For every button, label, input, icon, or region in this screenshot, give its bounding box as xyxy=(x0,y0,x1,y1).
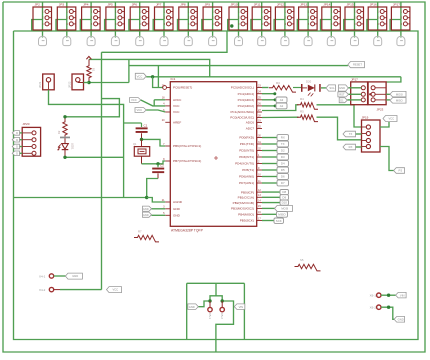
pin 1 PD3(INT1) xyxy=(239,154,262,159)
svg-text:JP20: JP20 xyxy=(22,122,29,126)
net flag GND X6 xyxy=(394,317,405,323)
svg-text:PB3(MOSI/OC2): PB3(MOSI/OC2) xyxy=(231,207,254,211)
svg-text:1: 1 xyxy=(308,11,310,14)
svg-text:PC3(ADC3): PC3(ADC3) xyxy=(238,98,254,102)
svg-text:1: 1 xyxy=(331,11,333,14)
svg-text:GND: GND xyxy=(173,207,181,211)
pad under JP9 xyxy=(209,36,217,45)
svg-text:PD1(TXD): PD1(TXD) xyxy=(240,142,254,146)
wire pin23 to R3 xyxy=(262,87,269,89)
net flag RESET xyxy=(348,62,365,68)
wire PB4 xyxy=(262,213,277,215)
pin ring X4-2 xyxy=(49,287,53,291)
wire JP19 to PS flag xyxy=(380,147,394,171)
connector JP5 xyxy=(105,2,125,38)
pin X4-1 xyxy=(39,274,54,279)
svg-text:1: 1 xyxy=(91,11,93,14)
svg-text:27: 27 xyxy=(258,109,261,112)
svg-text:MOSI: MOSI xyxy=(396,92,403,96)
pin 26 PC2(ADC2) xyxy=(238,103,262,108)
pin 20 AREF xyxy=(162,119,182,124)
pin 30 PD0(RXD) xyxy=(239,134,262,139)
net flag p5 xyxy=(339,98,347,103)
net label box D8 xyxy=(280,190,289,195)
svg-text:20: 20 xyxy=(162,119,165,122)
pin 6 VCC xyxy=(163,109,180,114)
svg-text:32: 32 xyxy=(258,147,261,150)
svg-text:PC5(ADC5/SCL): PC5(ADC5/SCL) xyxy=(231,86,254,90)
svg-text:PC0(ADC0/USC): PC0(ADC0/USC) xyxy=(230,116,254,120)
svg-text:1: 1 xyxy=(285,11,287,14)
pin X4-2 xyxy=(39,287,60,292)
svg-text:D10: D10 xyxy=(282,201,288,205)
net flag GND1 xyxy=(143,206,152,211)
junction xyxy=(274,105,277,108)
resistor R6 xyxy=(295,264,321,271)
net flag GND2 xyxy=(143,212,152,217)
svg-text:1: 1 xyxy=(261,11,263,14)
wire X5-2 up xyxy=(216,296,222,301)
svg-text:1: 1 xyxy=(238,11,240,14)
svg-text:25: 25 xyxy=(258,97,261,100)
wire reset riser xyxy=(128,59,130,82)
junction xyxy=(387,306,390,309)
pin X6-2 xyxy=(370,305,381,309)
svg-text:VCC: VCC xyxy=(388,117,394,121)
svg-text:JP16: JP16 xyxy=(370,3,377,7)
wire PD1(TXD) xyxy=(262,143,277,145)
svg-text:PD7(AIN1): PD7(AIN1) xyxy=(239,181,254,185)
svg-text:JP15: JP15 xyxy=(347,3,354,7)
svg-text:2: 2 xyxy=(354,17,356,20)
svg-text:X5-2: X5-2 xyxy=(220,313,224,319)
svg-text:2: 2 xyxy=(401,17,403,20)
net flag SCL xyxy=(326,85,336,91)
wire PB1 xyxy=(262,196,280,198)
junction xyxy=(63,156,66,159)
svg-text:PD4(XCK/T0): PD4(XCK/T0) xyxy=(235,162,254,166)
svg-text:PB4(MISO): PB4(MISO) xyxy=(238,213,254,217)
svg-text:9: 9 xyxy=(258,167,260,170)
svg-text:ATMEGA328P TQFP: ATMEGA328P TQFP xyxy=(171,229,204,233)
resistor R1 xyxy=(87,59,91,82)
svg-text:C2: C2 xyxy=(160,163,164,167)
connector JP9 xyxy=(202,2,222,38)
svg-text:2: 2 xyxy=(91,17,93,20)
svg-text:D6: D6 xyxy=(281,175,285,179)
svg-text:JP13: JP13 xyxy=(300,3,307,7)
wire XTAL2 to pin8 xyxy=(158,161,165,164)
svg-text:JP17: JP17 xyxy=(393,3,400,7)
wire PD3(INT1) xyxy=(262,156,277,158)
svg-text:PS: PS xyxy=(399,169,403,173)
connector JP4 xyxy=(80,2,100,38)
wire cluster top xyxy=(187,282,245,284)
capacitor C1 xyxy=(136,123,148,139)
svg-text:PC4(ADC4): PC4(ADC4) xyxy=(238,92,254,96)
svg-text:3: 3 xyxy=(67,23,69,26)
pin 12 PB0(ICP) xyxy=(241,189,262,194)
wire JP20 pin4 stub xyxy=(20,152,23,154)
svg-text:1: 1 xyxy=(377,11,379,14)
pin 7 PB6(XTAL1/TOSC1) xyxy=(163,143,201,148)
wire gnd to C1 xyxy=(124,122,142,124)
wire X5-2 stair to outer xyxy=(216,301,234,352)
svg-text:2: 2 xyxy=(285,17,287,20)
svg-text:PC6(/RESET): PC6(/RESET) xyxy=(173,86,192,90)
wire cluster left xyxy=(186,283,188,339)
net flag PS xyxy=(394,168,405,174)
svg-text:3: 3 xyxy=(354,23,356,26)
svg-text:JP10: JP10 xyxy=(231,3,238,7)
svg-text:PD6(AIN0): PD6(AIN0) xyxy=(239,175,254,179)
svg-text:JP21: JP21 xyxy=(38,81,42,88)
wire LED cathode rail xyxy=(65,156,124,158)
ring xyxy=(377,293,381,297)
junction xyxy=(156,162,159,165)
wire tag to JP17 p1 xyxy=(348,87,361,89)
connector JP17 xyxy=(390,2,410,38)
wire cluster middle drop xyxy=(215,283,217,296)
svg-text:16: 16 xyxy=(258,211,261,214)
svg-text:PB7(XTAL2/TOSC2): PB7(XTAL2/TOSC2) xyxy=(173,159,201,163)
svg-text:2: 2 xyxy=(308,17,310,20)
net label box pin26 xyxy=(276,103,287,109)
svg-text:MISO: MISO xyxy=(396,98,403,102)
svg-text:JP5: JP5 xyxy=(107,3,113,7)
wire X4-1 to GND xyxy=(54,275,66,277)
wire pin24 xyxy=(262,93,275,95)
wire XTAL1 net xyxy=(142,139,166,146)
wire X5-1 to GND tag xyxy=(198,301,210,307)
wire H3 branch to reset pin xyxy=(157,66,159,88)
svg-text:GND: GND xyxy=(143,213,149,217)
svg-text:JP9: JP9 xyxy=(205,3,211,7)
supply VCC symbol xyxy=(86,56,91,59)
wire X6-2 to GND xyxy=(381,307,394,319)
svg-text:SCL: SCL xyxy=(329,86,335,90)
net flag VCC X4 xyxy=(107,287,122,293)
wire gnd tag1 xyxy=(152,208,166,210)
wire XTAL2 net xyxy=(142,163,159,165)
svg-text:D: D xyxy=(16,131,18,135)
net flag MOSI xyxy=(390,91,406,97)
pad under JP6 xyxy=(136,36,144,45)
svg-text:A3: A3 xyxy=(280,98,284,102)
wire JP21 to gnd rail xyxy=(49,90,124,198)
wire D20 to flag xyxy=(321,87,326,89)
svg-text:2: 2 xyxy=(188,17,190,20)
svg-text:JP6: JP6 xyxy=(132,3,138,7)
svg-text:2: 2 xyxy=(115,17,117,20)
pad under JP3 xyxy=(63,36,71,45)
connector JP7 xyxy=(153,2,173,38)
svg-text:3: 3 xyxy=(401,23,403,26)
pin 24 PC4(ADC4) xyxy=(238,91,262,96)
junction in JP10 xyxy=(230,24,233,27)
svg-text:1: 1 xyxy=(164,11,166,14)
svg-text:JP11: JP11 xyxy=(254,3,261,7)
svg-text:11: 11 xyxy=(258,180,261,183)
wire H1 rail to inner loop xyxy=(102,31,228,52)
wire pin27 to R4 xyxy=(262,105,299,111)
wire H3 reset rail to RESET flag xyxy=(129,65,348,67)
connector JP19 xyxy=(362,116,381,153)
net label box D6 xyxy=(277,174,289,180)
svg-text:GND: GND xyxy=(398,317,404,321)
connector JP14 xyxy=(321,2,341,38)
ring xyxy=(377,305,381,309)
svg-text:Q1: Q1 xyxy=(133,142,137,146)
reset bubble xyxy=(163,86,167,90)
junction xyxy=(273,92,276,95)
net flag VCC vcc2 xyxy=(135,108,146,113)
resistor R4 xyxy=(297,103,318,110)
svg-text:LED1: LED1 xyxy=(71,143,75,150)
svg-text:R5: R5 xyxy=(300,109,304,113)
svg-text:1: 1 xyxy=(188,11,190,14)
svg-text:2: 2 xyxy=(261,17,263,20)
svg-text:3: 3 xyxy=(115,23,117,26)
pad under JP17 xyxy=(397,36,405,45)
wire X5-1 up xyxy=(210,296,216,301)
connector JP8 xyxy=(178,2,198,38)
svg-text:PC2(ADC2): PC2(ADC2) xyxy=(238,104,254,108)
svg-text:D4: D4 xyxy=(281,162,285,166)
svg-text:SCK: SCK xyxy=(276,219,282,223)
svg-text:D9: D9 xyxy=(282,195,286,199)
svg-text:RST: RST xyxy=(339,93,345,97)
net label box RX xyxy=(277,135,289,141)
ring xyxy=(220,307,224,311)
svg-text:X6-1: X6-1 xyxy=(370,293,377,297)
capacitor C2 xyxy=(152,163,164,178)
wire gnd tag2 xyxy=(152,214,166,216)
wire tag to VCC pin diagonal xyxy=(141,100,166,106)
svg-text:PB2(SS/OC1B): PB2(SS/OC1B) xyxy=(233,201,254,205)
svg-text:D20: D20 xyxy=(306,79,312,83)
pin 28 PC0(ADC0/USC) xyxy=(230,114,262,119)
connector JP6 xyxy=(129,2,149,38)
LED LED1 xyxy=(58,138,75,157)
svg-text:PB0(ICP): PB0(ICP) xyxy=(241,190,254,194)
junction xyxy=(145,196,148,199)
junction xyxy=(208,299,211,302)
pin X5-2 xyxy=(220,301,224,319)
net label box SCK xyxy=(274,218,284,223)
pin 31 PD1(TXD) xyxy=(240,141,262,146)
pad under JP10 xyxy=(235,36,243,45)
svg-text:PC1(ADC1/SDA): PC1(ADC1/SDA) xyxy=(230,110,254,114)
svg-text:JP7: JP7 xyxy=(156,3,162,7)
resistor R2 xyxy=(63,117,67,137)
pad under JP2 xyxy=(39,36,47,45)
wire reset net from R1 xyxy=(89,82,129,84)
pin 10 PD6(AIN0) xyxy=(239,173,262,178)
wire JP20 pin3 stub xyxy=(20,146,23,148)
net flag JP20-4 xyxy=(12,151,19,156)
connector JP20 xyxy=(22,122,40,156)
pin 13 PB1(OC1A) xyxy=(238,194,262,199)
svg-text:R4: R4 xyxy=(300,97,304,101)
svg-text:R2: R2 xyxy=(57,130,61,134)
svg-text:JP19: JP19 xyxy=(362,116,369,120)
resistor R5 xyxy=(297,115,318,122)
svg-text:17: 17 xyxy=(258,217,261,220)
svg-text:3: 3 xyxy=(164,23,166,26)
pad under JP15 xyxy=(351,36,359,45)
svg-text:3: 3 xyxy=(212,23,214,26)
svg-text:R7: R7 xyxy=(138,229,142,233)
net flag to JP17 p1 xyxy=(338,85,348,91)
svg-text:31: 31 xyxy=(258,141,261,144)
svg-text:RX: RX xyxy=(281,136,285,140)
pin X5-1 xyxy=(208,301,212,319)
svg-text:PB5(SCK): PB5(SCK) xyxy=(240,219,254,223)
net flag MISO xyxy=(390,98,406,104)
pin X6-1 xyxy=(370,293,381,297)
svg-text:1: 1 xyxy=(42,11,44,14)
svg-text:13: 13 xyxy=(258,194,261,197)
svg-text:23: 23 xyxy=(258,84,261,87)
svg-text:X5-1: X5-1 xyxy=(208,313,212,319)
svg-text:D7: D7 xyxy=(281,181,285,185)
connector JP15 xyxy=(344,2,364,38)
net label box D2 xyxy=(277,148,289,154)
svg-text:1: 1 xyxy=(258,154,260,157)
resistor R7 xyxy=(134,235,159,242)
svg-text:1: 1 xyxy=(401,11,403,14)
svg-text:JP2: JP2 xyxy=(35,3,41,7)
pin 3 GND xyxy=(163,206,181,211)
svg-text:GND: GND xyxy=(173,214,181,218)
svg-text:VCC: VCC xyxy=(137,74,143,78)
svg-text:12: 12 xyxy=(258,189,261,192)
svg-text:2: 2 xyxy=(67,17,69,20)
pin 32 PD2(INT0) xyxy=(239,147,262,152)
svg-text:C1: C1 xyxy=(144,123,148,127)
net flag RX xyxy=(343,144,356,150)
net label box D3 xyxy=(277,154,289,160)
svg-text:VIN: VIN xyxy=(400,293,405,297)
svg-text:D: D xyxy=(16,145,18,149)
svg-text:3: 3 xyxy=(91,23,93,26)
net flag MOSI pb3 xyxy=(275,206,293,212)
pin 17 PB5(SCK) xyxy=(240,217,262,222)
svg-text:PD2(INT0): PD2(INT0) xyxy=(239,149,254,153)
wire PD5(T1) xyxy=(262,169,277,171)
wire JP17 to MOSI xyxy=(386,93,390,95)
svg-text:JP23: JP23 xyxy=(377,107,384,111)
svg-text:TX: TX xyxy=(281,142,285,146)
connector JP11 xyxy=(251,2,271,38)
wire PD7(AIN1) xyxy=(262,182,277,184)
svg-text:VCC: VCC xyxy=(173,104,180,108)
svg-text:X6-2: X6-2 xyxy=(370,305,377,309)
op-amp? no: IC U1 ATMEGA328P TQFP xyxy=(170,77,256,233)
wire PB3 xyxy=(262,207,275,209)
svg-text:D: D xyxy=(16,138,18,142)
svg-text:R1: R1 xyxy=(92,68,96,72)
connector JP16 xyxy=(367,2,387,38)
svg-text:2: 2 xyxy=(139,17,141,20)
pin 5 GND xyxy=(163,212,181,217)
svg-text:AGND: AGND xyxy=(173,200,183,204)
wire R4 to JP19 pin1 xyxy=(317,105,362,127)
svg-text:TX: TX xyxy=(349,132,353,136)
connector JP2 xyxy=(32,2,52,38)
wire pin26 xyxy=(262,105,276,107)
svg-text:A2: A2 xyxy=(280,104,284,108)
svg-text:PD5(T1): PD5(T1) xyxy=(242,168,254,172)
junction xyxy=(63,115,66,118)
wire C2 to gnd junction xyxy=(147,179,158,198)
svg-text:X4-2: X4-2 xyxy=(39,288,46,292)
svg-text:1: 1 xyxy=(354,11,356,14)
diode D20 with blocking caps xyxy=(293,79,321,96)
wire PD0(RXD) xyxy=(262,137,277,139)
svg-text:2: 2 xyxy=(377,17,379,20)
pin 22 ADC7 xyxy=(246,125,262,130)
wire cluster right xyxy=(243,283,245,339)
svg-text:15: 15 xyxy=(258,205,261,208)
wire H4 into JP17 xyxy=(386,77,401,82)
pin ring X4-1 xyxy=(49,274,53,278)
svg-text:1: 1 xyxy=(212,11,214,14)
svg-text:AVCC: AVCC xyxy=(173,98,182,102)
wire H2 VCC rail xyxy=(89,59,210,76)
net flag RST xyxy=(338,92,349,97)
pin 21 AGND xyxy=(162,199,183,204)
svg-text:IC1: IC1 xyxy=(171,77,176,81)
pin 14 PB2(SS/OC1B) xyxy=(233,199,262,204)
pin 29 PC6(/RESET) xyxy=(162,84,193,89)
pin 16 PB4(MISO) xyxy=(238,211,262,216)
wire H4 rail across top of IC xyxy=(146,76,401,78)
svg-text:2: 2 xyxy=(164,17,166,20)
svg-text:3: 3 xyxy=(188,23,190,26)
pad under JP13 xyxy=(304,36,312,45)
wire gnd rail xyxy=(14,197,147,199)
ring xyxy=(208,307,212,311)
connector JP3 xyxy=(56,2,76,38)
svg-text:VIN: VIN xyxy=(239,305,244,309)
resistor R3 xyxy=(269,86,296,93)
wire AVCC jumper xyxy=(153,100,155,106)
svg-text:30: 30 xyxy=(258,134,261,137)
pad under JP11 xyxy=(258,36,266,45)
svg-text:D1: D1 xyxy=(340,98,344,102)
net label box D10 xyxy=(280,200,289,205)
wire X4-2 to VCC xyxy=(60,289,102,291)
svg-text:RESET: RESET xyxy=(353,63,362,67)
svg-text:ADC6: ADC6 xyxy=(246,121,255,125)
wire down to reset bubble xyxy=(153,77,163,88)
svg-text:3: 3 xyxy=(42,23,44,26)
svg-text:JP12: JP12 xyxy=(277,3,284,7)
svg-text:1: 1 xyxy=(67,11,69,14)
wire JP20 pin2 stub xyxy=(20,139,23,141)
net flag GND X5 xyxy=(188,304,199,310)
svg-text:10: 10 xyxy=(258,173,261,176)
wire R2 top rail xyxy=(65,99,119,117)
net flag GND X4 xyxy=(65,273,82,279)
svg-text:1: 1 xyxy=(115,11,117,14)
svg-text:3: 3 xyxy=(377,23,379,26)
svg-text:PB6(XTAL1/TOSC1): PB6(XTAL1/TOSC1) xyxy=(173,144,201,148)
svg-text:JP3: JP3 xyxy=(59,3,65,7)
pin 9 PD5(T1) xyxy=(242,167,262,172)
